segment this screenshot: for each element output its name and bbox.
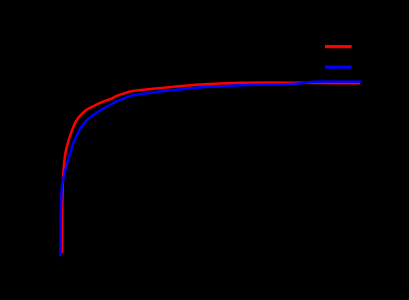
legend red line swatch — [325, 45, 352, 48]
blue curve — [61, 82, 362, 257]
red curve — [62, 83, 360, 254]
legend blue line swatch — [325, 65, 352, 68]
